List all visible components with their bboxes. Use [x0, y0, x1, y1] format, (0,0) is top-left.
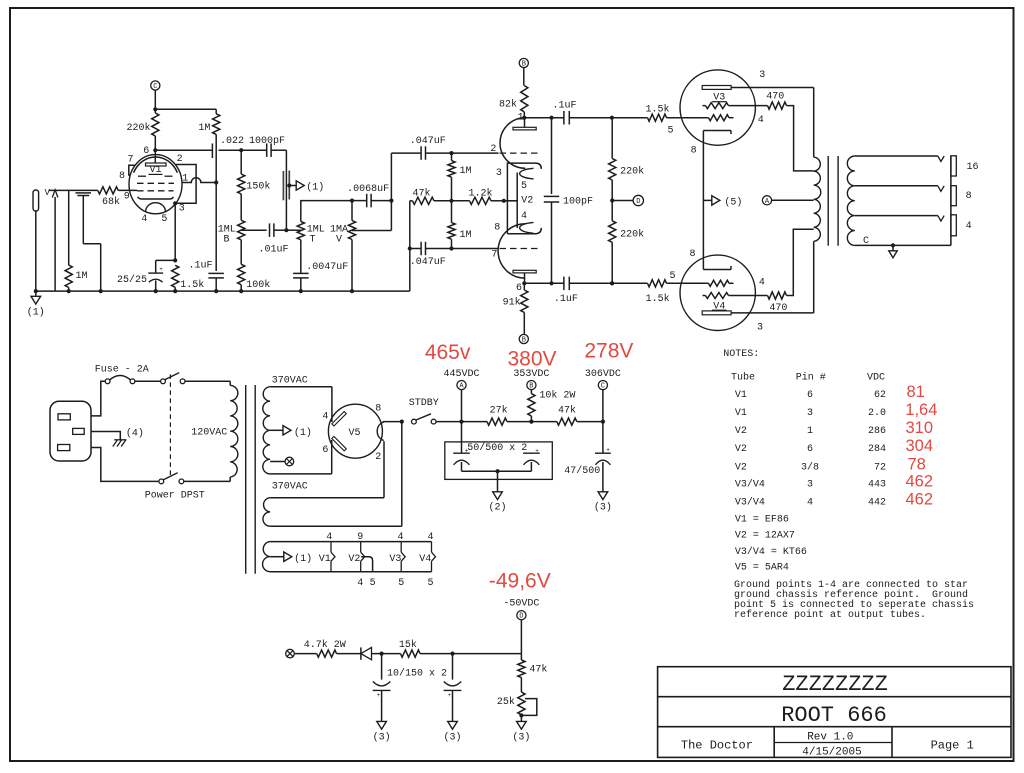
- red annotation -49,6V: [489, 569, 551, 592]
- svg-text:445VDC: 445VDC: [443, 369, 479, 380]
- svg-text:.047uF: .047uF: [410, 257, 446, 268]
- pot 25k bias: [497, 678, 537, 722]
- svg-text:2.0: 2.0: [868, 408, 886, 419]
- svg-text:C: C: [153, 83, 157, 91]
- V4 screen grid: [703, 293, 768, 299]
- red annotation 380V: [507, 348, 556, 371]
- svg-text:353VDC: 353VDC: [513, 369, 549, 380]
- capacitor 50/500 no2: [523, 447, 540, 471]
- svg-text:.01uF: .01uF: [259, 245, 289, 256]
- resistor 4.7k 2W: [304, 639, 361, 657]
- fuse 2A: [95, 364, 149, 383]
- svg-text:Power DPST: Power DPST: [145, 491, 205, 502]
- wire HV bottom: [270, 440, 332, 493]
- resistor 1M (V1 grid2 feed): [198, 109, 219, 134]
- label 10/150 x 2: [387, 667, 447, 679]
- svg-text:6: 6: [807, 444, 813, 455]
- svg-text:1.5k: 1.5k: [646, 293, 670, 305]
- svg-text:5: 5: [427, 578, 433, 589]
- wire 5V bottom to cathode node: [270, 422, 402, 527]
- svg-text:27k: 27k: [490, 405, 508, 417]
- V1 pin1 wire with hop: [182, 178, 218, 185]
- svg-text:.047uF: .047uF: [410, 136, 446, 147]
- svg-text:The Doctor: The Doctor: [681, 739, 753, 753]
- svg-text:(3): (3): [373, 732, 391, 744]
- speaker jack 4: [951, 215, 972, 236]
- svg-text:.1uF: .1uF: [554, 294, 578, 305]
- capacitor 25/25 (cathode bypass): [117, 260, 175, 293]
- terminal C (B+ to V1): [151, 81, 217, 113]
- tube V2 grid dashes top: [500, 152, 538, 154]
- svg-text:47/500: 47/500: [564, 465, 600, 477]
- svg-text:.1uF: .1uF: [189, 261, 213, 272]
- label V1: [149, 165, 163, 176]
- svg-text:V2 = 12AX7: V2 = 12AX7: [735, 531, 795, 542]
- power switch top pole: [161, 373, 185, 384]
- capacitor .1uF top: [553, 100, 648, 124]
- svg-text:470: 470: [766, 92, 784, 103]
- svg-text:2: 2: [177, 154, 183, 165]
- svg-text:C: C: [863, 236, 869, 247]
- wire plug neutral: [91, 448, 159, 482]
- V5 cathode arc: [377, 422, 384, 441]
- tube V2 plate bar top: [513, 118, 536, 130]
- terminal B bottom: [519, 334, 528, 344]
- tube V2 top section envelope: [500, 118, 525, 169]
- svg-text:9: 9: [357, 532, 363, 543]
- tube V1 grid dashes: [137, 176, 174, 191]
- svg-text:443: 443: [868, 479, 886, 490]
- svg-text:284: 284: [868, 444, 886, 455]
- svg-text:V2: V2: [735, 444, 747, 455]
- resistor 47k (ps): [531, 405, 605, 426]
- svg-text:25k: 25k: [497, 696, 515, 708]
- wire 1M down line: [215, 134, 217, 271]
- svg-text:4: 4: [141, 214, 147, 225]
- node after .022: [212, 148, 243, 152]
- svg-text:100pF: 100pF: [563, 197, 593, 208]
- resistor 470 (V3 screen): [766, 92, 813, 171]
- svg-text:2: 2: [375, 452, 381, 463]
- tube V1 cathode: [138, 197, 174, 212]
- shield/cap symbol at input: [76, 193, 103, 293]
- svg-text:5: 5: [398, 578, 404, 589]
- HV center tap to (1): [270, 426, 312, 439]
- svg-text:V: V: [336, 235, 342, 246]
- svg-text:220k: 220k: [126, 122, 150, 134]
- notes title: [723, 349, 759, 360]
- svg-text:7: 7: [127, 155, 133, 166]
- svg-text:+: +: [377, 692, 381, 699]
- svg-text:V2: V2: [735, 463, 747, 474]
- resistor 1M (input grid leak): [65, 190, 87, 293]
- svg-text:Page 1: Page 1: [931, 739, 974, 753]
- svg-text:Tube: Tube: [731, 371, 755, 383]
- svg-text:V: V: [45, 188, 51, 198]
- tube V1 plate bar: [146, 163, 167, 166]
- wire plug ground: [91, 432, 120, 440]
- svg-text:V2: V2: [735, 426, 747, 437]
- volume wiper wire: [352, 153, 394, 230]
- speaker jack bus: [950, 156, 952, 246]
- svg-text:370VAC: 370VAC: [272, 375, 308, 386]
- V3 cathode: [703, 131, 731, 135]
- svg-text:310: 310: [906, 419, 934, 437]
- label 3 (V4 plate pin): [757, 322, 763, 333]
- resistor 100k: [238, 264, 271, 293]
- svg-text:D: D: [519, 613, 523, 621]
- svg-text:6: 6: [516, 283, 522, 294]
- pot 1MA V (volume): [330, 199, 356, 294]
- 5V winding: [263, 498, 270, 527]
- heater tap V4: [419, 532, 435, 589]
- terminal A 445VDC: [443, 369, 479, 422]
- svg-text:47k: 47k: [558, 405, 576, 417]
- resistor 1.5k top: [646, 104, 709, 137]
- notes row V2 pin 1: [735, 419, 933, 437]
- heater winding 6.3V: [263, 542, 271, 572]
- filter cap common bus: [462, 469, 532, 492]
- svg-text:-50VDC: -50VDC: [503, 599, 539, 610]
- svg-text:1000pF: 1000pF: [249, 136, 285, 147]
- svg-text:68k: 68k: [102, 196, 120, 208]
- tube V2 bottom section envelope: [498, 224, 525, 278]
- svg-text:220k: 220k: [620, 166, 644, 178]
- capacitor 1000pF: [241, 136, 286, 157]
- svg-text:4: 4: [807, 497, 813, 508]
- svg-text:442: 442: [868, 497, 886, 508]
- svg-text:V1: V1: [735, 408, 747, 419]
- svg-text:47k: 47k: [413, 187, 431, 199]
- secondary 8 ohm lead: [855, 186, 944, 192]
- label 50/500 x 2: [467, 442, 527, 454]
- notes row V2 pin 6: [735, 437, 933, 455]
- svg-text:V3/V4: V3/V4: [735, 496, 765, 508]
- svg-text:1M: 1M: [460, 230, 472, 241]
- capacitor 100pF: [544, 118, 593, 284]
- wire V1 pin6 to plate: [153, 136, 212, 163]
- svg-text:Rev 1.0: Rev 1.0: [807, 732, 853, 744]
- svg-text:V5 = 5AR4: V5 = 5AR4: [735, 563, 789, 574]
- label 8 (V3 cathode pin): [691, 146, 697, 157]
- tube V4 plate: [702, 241, 814, 314]
- svg-text:1M: 1M: [198, 123, 210, 134]
- svg-text:1,64: 1,64: [905, 401, 937, 419]
- svg-text:D: D: [636, 198, 640, 206]
- title block frame: [658, 667, 1011, 758]
- wire switch to primary bottom: [184, 480, 230, 482]
- ground (2): [488, 492, 506, 514]
- wire plug hot: [91, 381, 105, 416]
- speaker jack 8: [951, 186, 972, 206]
- wire fuse to switch: [135, 380, 161, 382]
- heater rail top: [270, 541, 431, 543]
- notes paragraph: [734, 579, 974, 621]
- notes header: [731, 371, 885, 383]
- resistor 1M (V2 grid top): [448, 153, 472, 201]
- svg-text:.0068uF: .0068uF: [347, 184, 389, 195]
- svg-text:B: B: [223, 235, 229, 246]
- ground (3) under 47/500: [594, 492, 612, 514]
- svg-text:.022: .022: [220, 136, 244, 147]
- capacitor 50/500 no1: [453, 422, 470, 472]
- notes row V2 pin 3/8: [735, 456, 926, 474]
- terminal B top: [519, 58, 528, 85]
- svg-text:1M: 1M: [460, 166, 472, 177]
- heater rail bottom: [270, 571, 431, 573]
- svg-text:278V: 278V: [584, 339, 633, 362]
- V4 control grid: [709, 280, 734, 286]
- tube V2 cathode arcs: [504, 168, 534, 233]
- svg-text:1M: 1M: [76, 271, 88, 282]
- wire V5 cathode out: [383, 420, 404, 424]
- svg-text:NOTES:: NOTES:: [723, 349, 759, 360]
- notes row V1 pin 3: [735, 401, 938, 419]
- svg-text:7: 7: [491, 250, 497, 261]
- svg-text:4: 4: [322, 411, 328, 422]
- speaker jack 16: [951, 156, 979, 176]
- tube V2 grid dashes bottom: [500, 248, 538, 250]
- svg-text:4: 4: [758, 115, 764, 126]
- svg-text:8: 8: [691, 146, 697, 157]
- tube V1 envelope: [129, 155, 182, 214]
- wire switch to primary: [185, 380, 230, 382]
- V5 plate pin6: [322, 436, 346, 456]
- svg-text:10/150 x 2: 10/150 x 2: [387, 667, 447, 679]
- ground (3) cap2: [443, 721, 461, 743]
- to ground (5): [703, 196, 742, 209]
- svg-text:8: 8: [119, 171, 125, 182]
- capacitor .0068uF: [347, 184, 391, 208]
- svg-text:5: 5: [370, 578, 376, 589]
- svg-text:78: 78: [908, 456, 926, 474]
- title The Doctor: [681, 739, 753, 753]
- heater to ground (1): [270, 552, 312, 565]
- svg-text:370VAC: 370VAC: [272, 482, 308, 493]
- svg-text:ROOT 666: ROOT 666: [781, 703, 887, 728]
- svg-text:6: 6: [143, 146, 149, 157]
- terminal D -50VDC: [503, 599, 539, 654]
- resistor 1M (V2 grid bottom): [448, 201, 472, 251]
- label 3 (V3 plate pin): [759, 70, 765, 81]
- terminal D mid: [612, 195, 643, 206]
- output transformer primary: [814, 157, 821, 241]
- svg-text:ZZZZZZZZ: ZZZZZZZZ: [782, 672, 888, 697]
- terminal X bias: [286, 649, 317, 658]
- heater tap V1: [319, 532, 335, 572]
- output transformer secondary: [847, 156, 854, 245]
- svg-text:VDC: VDC: [867, 372, 885, 383]
- label 4 (V4 screen pin): [759, 277, 765, 288]
- svg-text:+: +: [535, 447, 539, 454]
- resistor 220k top: [609, 118, 645, 203]
- svg-text:47k: 47k: [529, 663, 547, 675]
- notes tube types: [735, 514, 807, 573]
- tube V2 inner bracket: [507, 163, 541, 234]
- output connector bars: [283, 171, 289, 201]
- ground (1) star point: [27, 289, 45, 319]
- tube V4 envelope: [680, 255, 755, 330]
- power transformer primary 120VAC: [191, 381, 238, 481]
- terminal B 353VDC: [513, 369, 549, 394]
- title date: [802, 747, 861, 759]
- capacitor .047uF (to V2 grid bottom): [408, 242, 499, 268]
- resistor 1.2k: [452, 187, 518, 204]
- title Rev 1.0: [807, 732, 853, 744]
- V4 cathode: [703, 266, 731, 270]
- ground (3) cap1: [373, 721, 391, 743]
- notes row V3/V4 pin 3: [735, 472, 933, 490]
- svg-text:3: 3: [757, 322, 763, 333]
- svg-text:4: 4: [427, 532, 433, 543]
- svg-text:4: 4: [357, 578, 363, 589]
- wire 1000pF down to .01 node: [285, 150, 287, 230]
- svg-text:(1): (1): [27, 307, 45, 319]
- wire V2 plate bottom to coupling: [524, 281, 563, 285]
- resistor 220k (V1 plate load): [126, 113, 158, 136]
- svg-text:120VAC: 120VAC: [191, 427, 227, 438]
- IEC plug: [50, 401, 91, 461]
- title ZZZZZZZZ: [782, 672, 888, 697]
- svg-text:(3): (3): [512, 732, 530, 744]
- svg-text:25/25: 25/25: [117, 274, 147, 286]
- svg-text:.0047uF: .0047uF: [306, 262, 348, 273]
- wire HV top: [270, 375, 332, 422]
- HV bias tap X: [270, 457, 294, 466]
- ground rail (input stage): [36, 290, 410, 292]
- wire V2 plate top to coupling: [524, 116, 563, 120]
- V5 pin labels: [375, 404, 381, 464]
- svg-text:V3/V4 = KT66: V3/V4 = KT66: [735, 546, 807, 558]
- power transformer core: [246, 385, 256, 574]
- svg-text:B: B: [522, 337, 526, 345]
- tube V5 envelope: [328, 404, 382, 458]
- svg-text:.1uF: .1uF: [553, 100, 577, 111]
- filter cap box: [445, 442, 553, 480]
- label 8 (V4 cathode pin): [689, 249, 695, 260]
- chassis ground (4): [113, 428, 144, 447]
- pot 1ML B (bass): [218, 220, 245, 264]
- svg-text:6: 6: [807, 390, 813, 401]
- svg-text:(4): (4): [126, 428, 144, 440]
- svg-text:3: 3: [807, 479, 813, 490]
- svg-text:V1 = EF86: V1 = EF86: [735, 514, 789, 525]
- terminal A mid (to OPT center tap): [762, 196, 813, 206]
- resistor 470 (V4 screen): [768, 229, 814, 314]
- svg-text:-49,6V: -49,6V: [489, 569, 551, 592]
- svg-text:(3): (3): [443, 732, 461, 744]
- terminal C 306VDC: [585, 369, 621, 453]
- svg-text:B: B: [529, 383, 533, 391]
- label Power DPST: [145, 491, 205, 502]
- wire V5 pin2 to 5V winding: [270, 441, 384, 498]
- resistor 15k: [399, 639, 522, 657]
- svg-text:4: 4: [397, 532, 403, 543]
- resistor 27k: [462, 405, 534, 426]
- svg-text:5: 5: [521, 181, 527, 192]
- to ground (1) via connector: [287, 181, 324, 194]
- resistor 68k (grid stopper): [98, 187, 137, 208]
- svg-text:8: 8: [375, 404, 381, 415]
- input jack J1: [33, 190, 39, 291]
- svg-text:5: 5: [669, 271, 675, 282]
- svg-text:(1): (1): [294, 427, 312, 439]
- V3 control grid: [709, 115, 734, 121]
- svg-text:+: +: [448, 692, 452, 699]
- svg-text:286: 286: [868, 426, 886, 437]
- svg-text:8: 8: [689, 249, 695, 260]
- svg-text:3: 3: [496, 168, 502, 179]
- svg-text:(5): (5): [724, 196, 742, 208]
- svg-text:C: C: [601, 383, 605, 391]
- svg-text:3: 3: [179, 204, 185, 215]
- HV secondary 370VAC: [263, 387, 270, 474]
- svg-text:462: 462: [906, 472, 934, 490]
- red annotation 278V: [584, 339, 633, 362]
- resistor 10k 2W: [528, 389, 576, 421]
- svg-text:+: +: [606, 446, 610, 453]
- ground (3) bias: [512, 721, 530, 743]
- resistor 47k (tail): [410, 187, 454, 291]
- notes row V3/V4 pin 4: [735, 490, 933, 508]
- svg-text:304: 304: [906, 437, 934, 455]
- wire V1 cathode pin3: [173, 203, 177, 262]
- svg-text:6: 6: [322, 445, 328, 456]
- notes row V1 pin 6: [735, 383, 925, 401]
- svg-text:V4: V4: [419, 554, 431, 565]
- svg-text:V2: V2: [521, 195, 533, 206]
- svg-text:(1): (1): [294, 553, 312, 565]
- svg-text:8: 8: [494, 222, 500, 233]
- title Page 1: [931, 739, 974, 753]
- svg-text:(2): (2): [488, 501, 506, 513]
- svg-text:82k: 82k: [499, 99, 517, 111]
- resistor 150k: [238, 150, 271, 220]
- svg-text:4: 4: [759, 277, 765, 288]
- capacitor 10/150 no2: [444, 654, 462, 722]
- label 4 (V3 screen pin): [758, 115, 764, 126]
- tube V2 plate bar bottom: [513, 270, 536, 283]
- standby switch: [409, 398, 464, 424]
- svg-text:V1: V1: [735, 390, 747, 401]
- capacitor 47/500: [564, 446, 611, 492]
- V2 pin labels: [490, 113, 533, 295]
- svg-text:10k 2W: 10k 2W: [539, 389, 575, 401]
- cathode bus V3/V4: [702, 131, 704, 270]
- V1 pin2-1 bracket: [173, 165, 196, 206]
- resistor 1.5k (cathode): [172, 265, 205, 293]
- svg-text:5: 5: [667, 125, 673, 136]
- svg-text:(1): (1): [306, 182, 324, 194]
- V5 plate pin4: [322, 411, 346, 426]
- secondary 16 ohm lead: [855, 156, 944, 162]
- svg-text:T: T: [309, 235, 315, 246]
- switch link dashed: [169, 374, 171, 477]
- svg-text:1.2k: 1.2k: [469, 187, 493, 199]
- pot 1ML T (treble): [297, 201, 352, 274]
- V1 pin labels: [119, 146, 188, 225]
- capacitor .0047uF: [293, 262, 348, 293]
- svg-text:16: 16: [967, 162, 979, 173]
- capacitor .022: [212, 136, 244, 158]
- svg-text:4: 4: [966, 221, 972, 232]
- wire input: [49, 189, 98, 191]
- svg-text:380V: 380V: [507, 348, 556, 371]
- svg-text:Fuse - 2A: Fuse - 2A: [95, 364, 149, 375]
- svg-text:3: 3: [807, 408, 813, 419]
- resistor 220k bottom: [609, 201, 645, 286]
- label V4: [712, 301, 727, 312]
